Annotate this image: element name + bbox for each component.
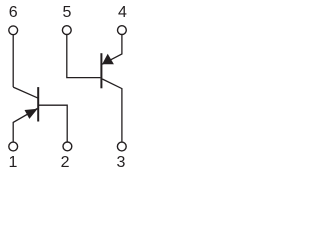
pin 3 terminal circle [117, 142, 126, 151]
pin 1 terminal circle [9, 142, 18, 151]
svg-text:5: 5 [62, 4, 71, 21]
wire pin6 to collector (vertical) [12, 35, 14, 87]
transistor Q1 (left PNP) [13, 35, 67, 142]
pin 5 terminal circle [62, 26, 71, 35]
Q2 emitter wire from pin 4 [102, 35, 122, 65]
pin 2 terminal circle [63, 142, 72, 151]
Q1 collector diagonal [13, 87, 38, 98]
Q1 base wire to pin 2 [39, 105, 67, 142]
pin 6 terminal circle [9, 26, 18, 35]
svg-text:3: 3 [117, 154, 126, 171]
Q1 emitter arrow (PNP, into base bar) [25, 109, 38, 119]
svg-text:4: 4 [118, 4, 127, 21]
Q1 base bar [37, 87, 39, 121]
svg-text:2: 2 [61, 154, 70, 171]
wire pin5 to base [67, 35, 101, 78]
Q2 base bar [100, 53, 102, 88]
svg-text:6: 6 [9, 4, 18, 21]
pin 4 terminal circle [118, 26, 127, 35]
Q1 emitter wire to pin 1 [13, 109, 37, 143]
svg-text:1: 1 [9, 154, 18, 171]
transistor Q2 (right PNP) [67, 35, 122, 143]
Q2 emitter arrow (PNP, into base bar) [102, 54, 114, 64]
Q2 collector wire to pin 3 [102, 79, 122, 142]
